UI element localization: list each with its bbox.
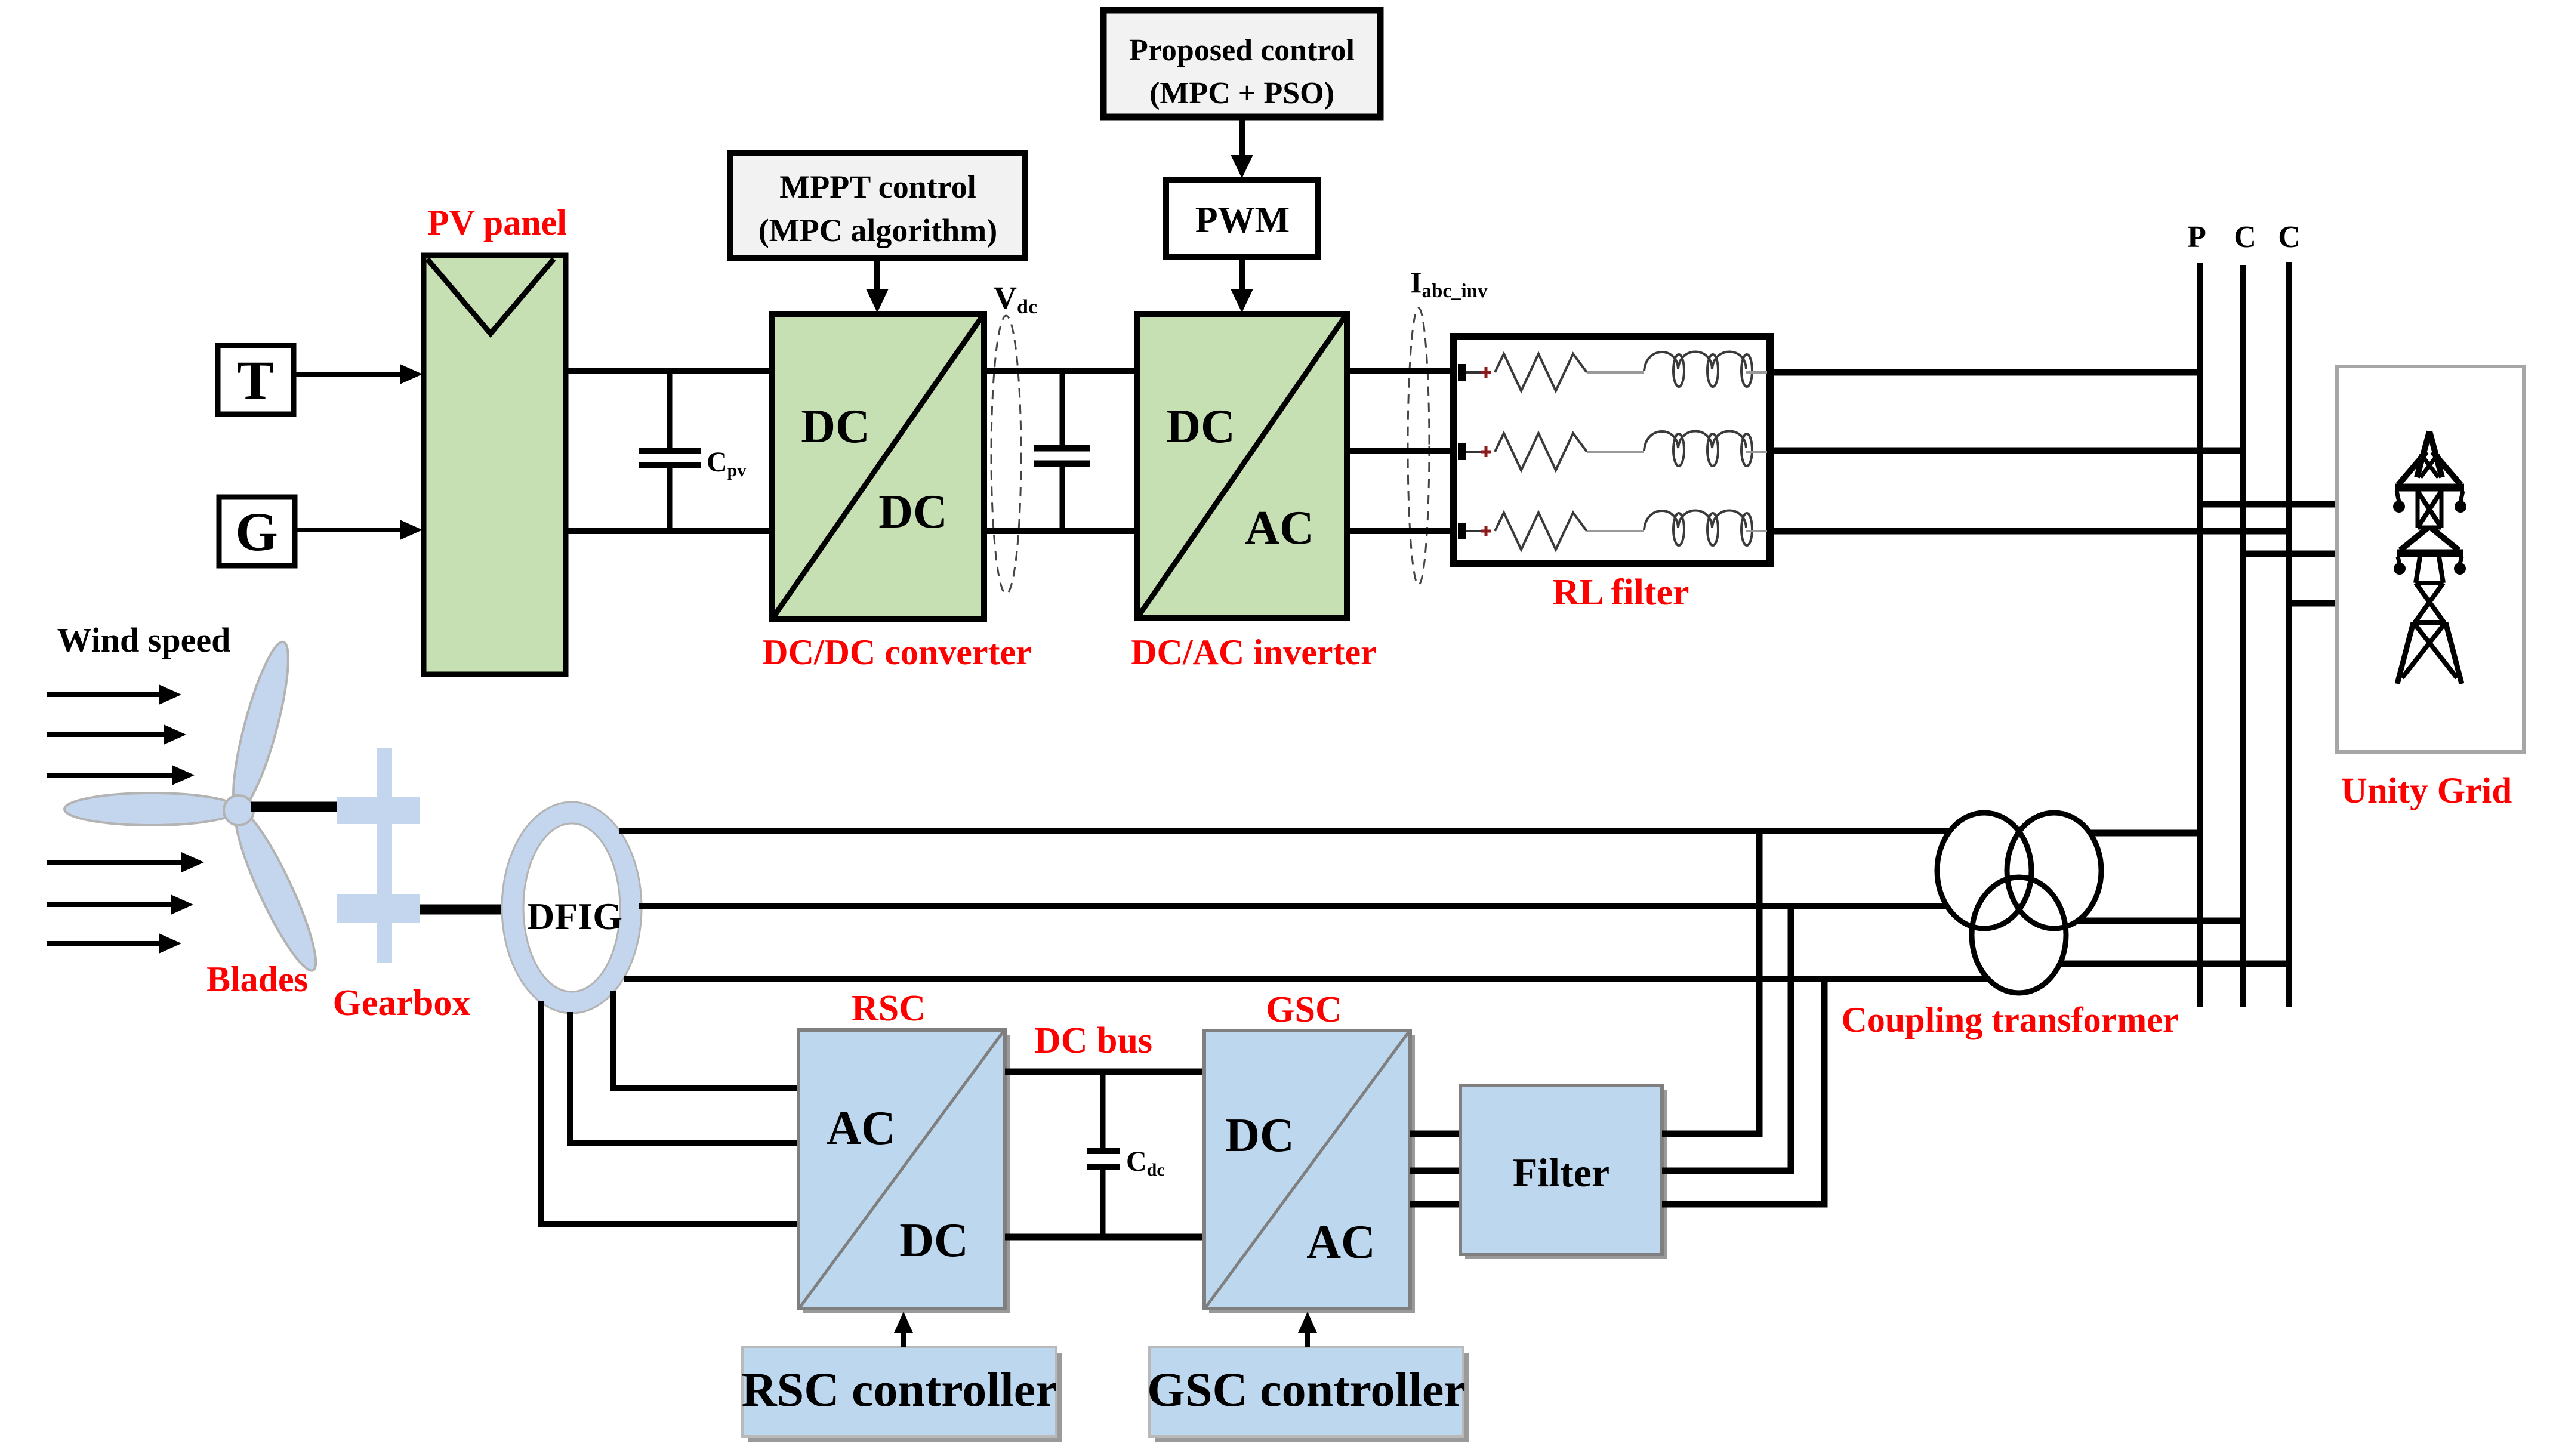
svg-text:RL filter: RL filter <box>1553 572 1689 613</box>
PV panel <box>424 255 566 674</box>
svg-text:Iabc_inv: Iabc_inv <box>1410 266 1488 302</box>
wire rotor phase 3 <box>613 991 798 1088</box>
wire RSC controller arrow <box>901 1329 906 1347</box>
coupling transformer <box>1937 813 2101 993</box>
svg-text:DC: DC <box>878 486 948 538</box>
wire bus C to grid <box>2243 551 2337 557</box>
svg-text:(MPC + PSO): (MPC + PSO) <box>1149 76 1334 110</box>
svg-text:AC: AC <box>1306 1216 1376 1269</box>
wire stator phase 1 <box>619 828 1950 834</box>
svg-text:(MPC algorithm): (MPC algorithm) <box>758 212 997 248</box>
converter DC/DC U1 <box>772 314 984 619</box>
resistor-inductor branch b <box>1458 431 1767 471</box>
wire wind arrow 4 <box>47 860 185 865</box>
generator DFIG <box>502 802 642 1013</box>
svg-text:Cpv: Cpv <box>707 446 746 480</box>
svg-text:T: T <box>237 350 273 411</box>
svg-text:P: P <box>2187 220 2206 254</box>
wire wind arrow 3 <box>47 773 175 778</box>
wire bus P to grid <box>2200 501 2337 508</box>
wire GSC to filter phase 1 <box>1410 1131 1460 1137</box>
svg-text:Vdc: Vdc <box>994 280 1037 318</box>
wire rotor phase 2 <box>570 1012 798 1143</box>
PWM block <box>1166 180 1318 257</box>
wire Proposed control to PWM <box>1239 117 1245 158</box>
svg-text:PWM: PWM <box>1195 200 1290 240</box>
wire filter to bus phase c <box>1770 528 2289 535</box>
svg-text:C: C <box>2278 220 2301 254</box>
svg-text:DC: DC <box>899 1214 969 1267</box>
RL filter block <box>1453 337 1770 564</box>
wire G to PV <box>295 528 403 532</box>
wire bus P vertical <box>2197 263 2203 1007</box>
wire wind arrow 1 <box>47 692 162 697</box>
inverter DC/AC U2 <box>1137 314 1347 618</box>
turbine blades <box>64 638 328 977</box>
svg-text:AC: AC <box>1245 502 1314 554</box>
wire wind arrow 2 <box>47 732 167 737</box>
resistor-inductor branch a <box>1458 352 1767 391</box>
wire low-speed shaft <box>251 802 338 812</box>
wire stator phase 3 <box>624 976 1988 982</box>
wire GSC to filter phase 3 <box>1410 1201 1460 1208</box>
MPPT control block <box>730 153 1025 258</box>
wire GSC controller arrow <box>1305 1329 1310 1347</box>
svg-text:Unity Grid: Unity Grid <box>2341 771 2512 811</box>
GSC controller block <box>1147 1347 1469 1442</box>
wire inverter to filter phase b <box>1347 448 1453 454</box>
wire bus C2 vertical <box>2286 262 2292 1007</box>
svg-text:RSC: RSC <box>852 988 926 1029</box>
svg-text:GSC: GSC <box>1266 989 1342 1030</box>
svg-text:AC: AC <box>827 1102 896 1155</box>
wire GSC to filter phase 2 <box>1410 1168 1460 1174</box>
wire filter riser 2 <box>1662 906 1791 1171</box>
svg-text:DC bus: DC bus <box>1034 1020 1152 1061</box>
wire transformer to bus C <box>2078 918 2243 924</box>
svg-text:C: C <box>2234 220 2256 254</box>
wire MPPT to DC/DC <box>874 258 880 292</box>
converter GSC <box>1204 1031 1415 1313</box>
wire rotor phase 1 <box>541 1001 798 1224</box>
wire transformer to bus P <box>2090 830 2200 837</box>
svg-text:DFIG: DFIG <box>527 895 622 937</box>
svg-text:Cdc: Cdc <box>1126 1146 1165 1180</box>
svg-text:DC: DC <box>1225 1109 1294 1162</box>
svg-text:DC: DC <box>1166 400 1235 453</box>
svg-text:Proposed control: Proposed control <box>1129 33 1355 67</box>
wire PV to DC/DC bottom rail <box>566 528 772 534</box>
converter RSC <box>798 1030 1010 1313</box>
svg-text:Gearbox: Gearbox <box>333 983 471 1023</box>
svg-text:PV panel: PV panel <box>427 203 567 242</box>
svg-text:RSC controller: RSC controller <box>741 1362 1057 1417</box>
gearbox <box>337 748 420 963</box>
svg-text:MPPT control: MPPT control <box>779 169 976 205</box>
svg-text:DC: DC <box>801 400 870 453</box>
wire filter riser 3 <box>1662 979 1824 1204</box>
wire DC bus top rail <box>1005 1069 1204 1075</box>
svg-text:Coupling transformer: Coupling transformer <box>1842 1000 2179 1039</box>
Proposed control block <box>1103 10 1380 117</box>
svg-text:DC/DC converter: DC/DC converter <box>762 633 1032 672</box>
wire filter riser 1 <box>1662 831 1759 1134</box>
wire bus C vertical <box>2240 265 2246 1007</box>
svg-text:DC/AC inverter: DC/AC inverter <box>1131 633 1377 672</box>
wire DC bus bottom rail <box>1005 1234 1204 1241</box>
wire inverter to filter phase c <box>1347 528 1453 534</box>
filter block <box>1460 1085 1667 1259</box>
wire PV to DC/DC top rail <box>566 368 772 374</box>
svg-text:GSC controller: GSC controller <box>1147 1362 1466 1417</box>
capacitor Cpv <box>639 371 701 531</box>
capacitor DC link <box>1034 371 1090 531</box>
Unity Grid block <box>2337 366 2524 752</box>
wire wind arrow 5 <box>47 902 174 907</box>
wire bus C2 to grid <box>2289 600 2337 607</box>
wire filter to bus phase a <box>1770 369 2200 376</box>
resistor-inductor branch c <box>1458 511 1767 550</box>
svg-text:Blades: Blades <box>206 960 308 999</box>
node Iabc_inv measurement <box>1408 308 1429 585</box>
wire PWM to inverter <box>1239 257 1245 292</box>
wire T to PV <box>294 372 403 377</box>
RSC controller block <box>741 1347 1062 1442</box>
svg-text:Filter: Filter <box>1513 1150 1609 1195</box>
capacitor Cdc <box>1087 1072 1120 1237</box>
wire filter to bus phase b <box>1770 448 2243 454</box>
wire inverter to filter phase a <box>1347 368 1453 374</box>
wire transformer to bus C2 <box>2060 961 2289 967</box>
wire stator phase 2 <box>639 903 1947 909</box>
input G (irradiance) <box>219 497 295 566</box>
input T (temperature) <box>218 346 294 414</box>
node Vdc measurement <box>991 316 1021 594</box>
svg-text:G: G <box>235 501 278 562</box>
wire wind arrow 6 <box>47 941 162 946</box>
wire DC/DC to inverter top rail <box>984 368 1137 374</box>
wire DC/DC to inverter bottom rail <box>984 528 1137 534</box>
transmission tower icon <box>2393 431 2466 684</box>
wire high-speed shaft <box>420 905 505 915</box>
svg-text:Wind speed: Wind speed <box>57 621 231 659</box>
